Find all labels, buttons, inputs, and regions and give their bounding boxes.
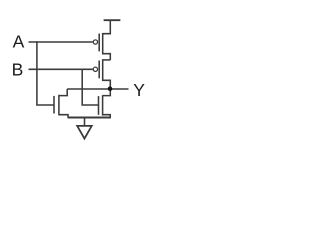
- svg-text:B: B: [12, 59, 24, 79]
- svg-text:Y: Y: [133, 80, 145, 100]
- svg-text:A: A: [13, 31, 25, 51]
